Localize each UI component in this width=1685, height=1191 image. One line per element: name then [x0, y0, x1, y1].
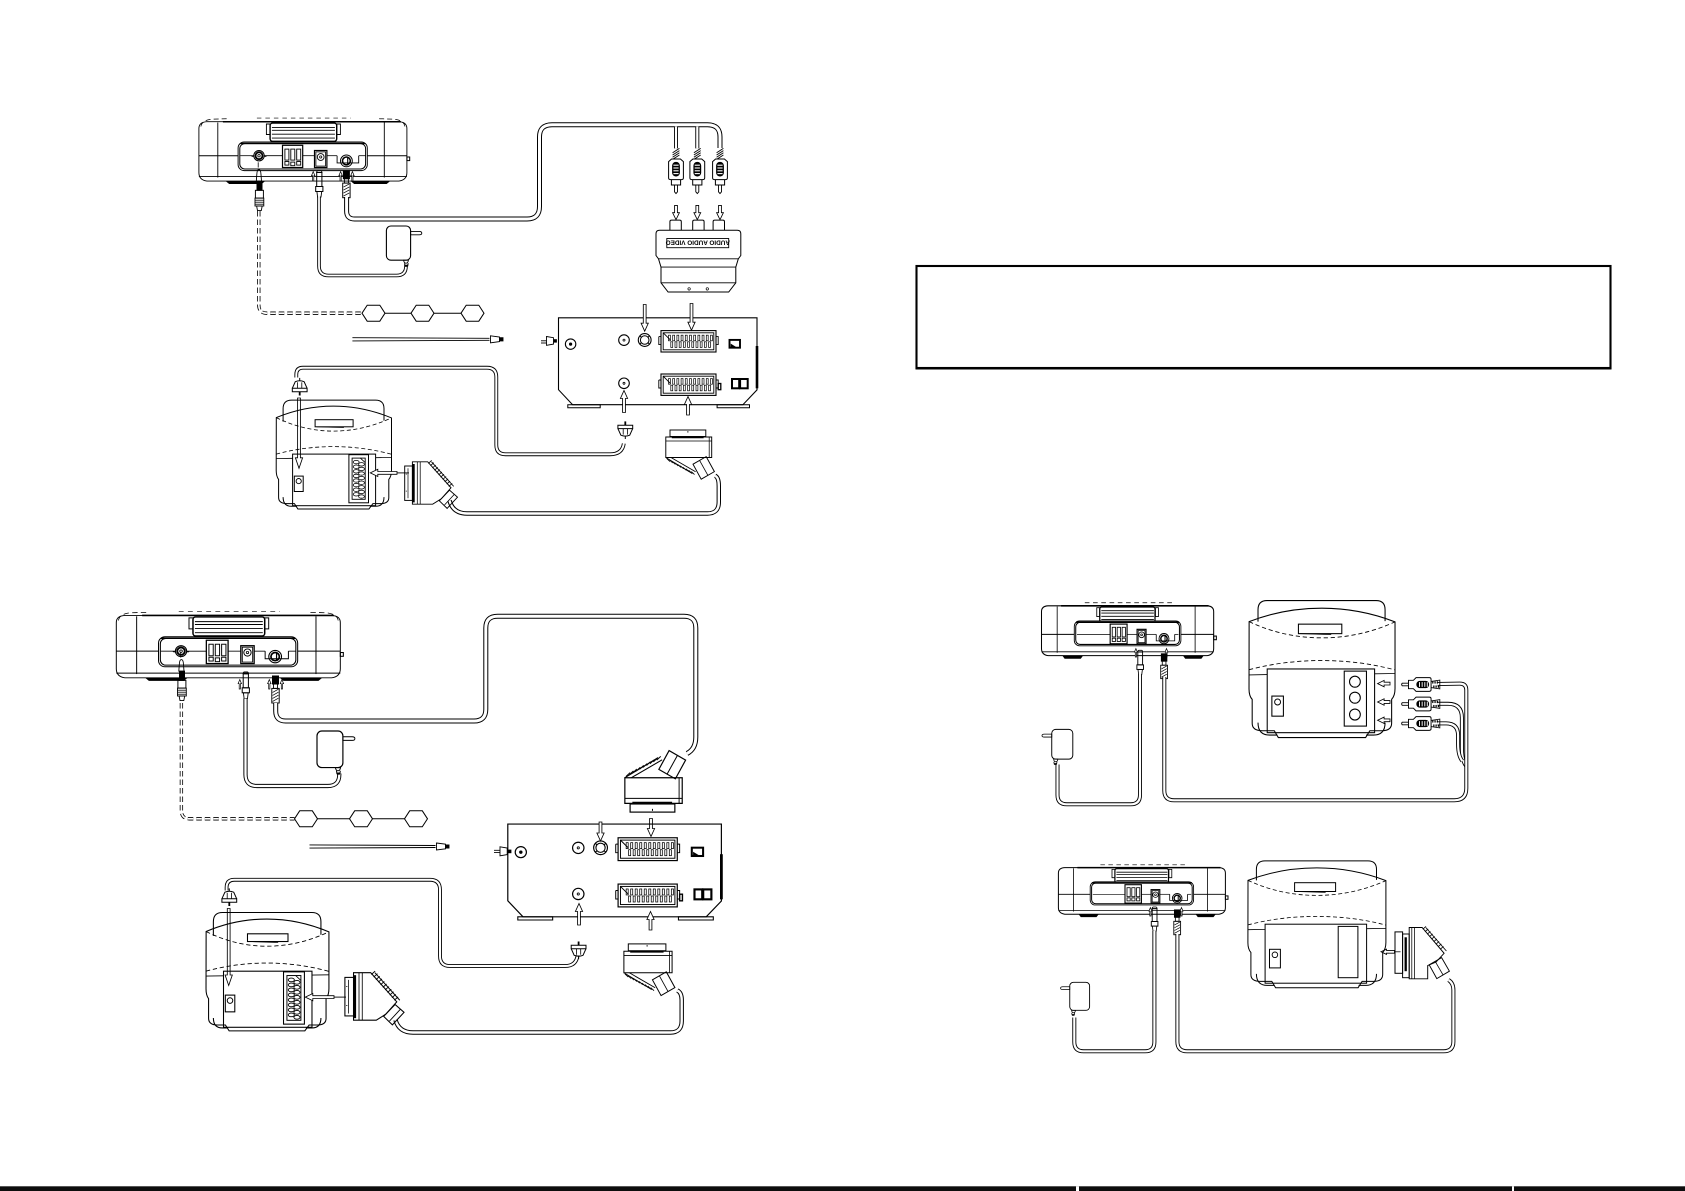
insertion arrow power console 1 — [312, 172, 315, 182]
antenna insertion arrow inside TV 1 — [295, 398, 302, 468]
insertion arrow SCART1 VCR 1 — [688, 304, 695, 331]
power plug into console 3 — [1137, 650, 1144, 674]
AC adapter 1 — [386, 226, 421, 266]
ferrite bead 2 — [411, 305, 434, 321]
AV cable console2 to SCART plug — [276, 616, 696, 753]
TV 1 rear — [276, 400, 391, 509]
TV 4 rear with SCART on side — [1248, 861, 1386, 988]
AV plug into console 1 — [343, 171, 350, 198]
SCART plug at TV 2 — [345, 971, 404, 1025]
insertion arrow AV console 1 — [339, 172, 342, 182]
insertion arrow RF-out VCR 2 — [575, 904, 582, 926]
console 3 — [1042, 603, 1217, 659]
RF plug into console 1 — [255, 162, 264, 210]
ferrite bead 2 d2 — [350, 811, 373, 827]
ferrite bead 3 — [461, 305, 484, 321]
power cable console2 to adapter 2 — [246, 699, 340, 787]
insertion arrow DIN VCR 2 — [597, 822, 604, 841]
SCART plug at TV 1 — [405, 460, 458, 508]
power cable console1 to AC adapter — [319, 197, 406, 276]
ferrite bead 1 — [362, 305, 385, 321]
SCART insertion arrow TV 2 — [305, 994, 334, 1001]
insertion arrow SCART2 VCR 1 (from below) — [684, 397, 691, 416]
power cable console4 to adapter 4 — [1074, 931, 1154, 1051]
page bottom scan edge — [0, 1186, 1685, 1191]
RCA plug red (audio) — [713, 148, 728, 193]
AV plug into console 4 — [1174, 910, 1181, 935]
AC adapter 2 — [317, 731, 355, 774]
RCA cable branch 3 d3 — [1438, 723, 1463, 761]
svg-text:AUDIO AUDIO VIDEO: AUDIO AUDIO VIDEO — [666, 238, 730, 245]
console 1 (game console rear) — [199, 118, 410, 184]
power plug into console 1 — [316, 171, 323, 197]
RCA plug 2 to TV3 — [1402, 697, 1440, 711]
TV 2 rear — [206, 913, 329, 1031]
SCART cable TV1 to VCR2 socket — [450, 476, 719, 514]
RCA plug white (audio) — [690, 148, 705, 193]
AC adapter 4 — [1061, 982, 1090, 1015]
SCART insertion arrow TV 1 — [370, 469, 397, 476]
SCART plug under VCR 2 lower socket — [624, 944, 675, 996]
RCA plug 3 to TV3 — [1402, 717, 1440, 731]
TV4 side socket plate — [1395, 932, 1403, 973]
insertion arrows console 3 — [1134, 649, 1137, 658]
insertion arrows console 2 — [238, 680, 241, 690]
RF lead VCR1 to TV1 — [296, 368, 624, 455]
SCART plug into TV 4 — [1403, 926, 1450, 978]
ferrite bead 1 d2 — [295, 811, 318, 827]
RCA to SCART adapter — [656, 220, 741, 292]
RF plug into console 2 — [178, 652, 187, 700]
AC adapter 3 — [1042, 729, 1073, 764]
insertion arrow SCART2 VCR 2 — [647, 912, 654, 931]
AV cable console1 to RCA plugs — [347, 125, 720, 219]
coax plug to VCR 1 — [618, 421, 633, 439]
coax plug to TV 2 — [222, 888, 237, 906]
insertion arrow RCA 2 — [694, 205, 701, 219]
power plug into console 4 — [1151, 907, 1158, 931]
RCA plug 1 to TV3 — [1402, 678, 1440, 692]
console 4 — [1058, 865, 1228, 917]
insertion arrows console 4 — [1149, 908, 1152, 917]
insertion arrow big SCART plug — [647, 819, 654, 837]
insertion arrow RCA 3 — [717, 205, 724, 219]
aerial cable with plug — [352, 337, 489, 340]
coax plug to TV 1 — [292, 378, 307, 396]
RF antenna cable (dashed) with ferrite beads — [259, 211, 362, 313]
AV plug into console 2 — [272, 676, 279, 703]
VCR 1 rear panel — [559, 318, 758, 408]
aerial lead stub into VCR 1 — [541, 340, 553, 342]
coax plug to VCR 2 — [571, 942, 586, 960]
RCA plug yellow (video) — [669, 148, 684, 193]
power cable console3 to adapter 3 — [1058, 674, 1141, 804]
RCA branch cable 2 — [695, 127, 699, 149]
TV 3 rear with RCA inputs — [1249, 601, 1395, 738]
AV cable console3 to RCA plugs — [1164, 677, 1466, 800]
AV plug into console 3 — [1161, 654, 1168, 679]
note box (empty) — [917, 266, 1611, 368]
RCA cable branch 2 d3 — [1438, 704, 1467, 766]
ferrite bead 3 d2 — [405, 811, 428, 827]
power plug into console 2 — [242, 672, 249, 698]
RF lead VCR2 to TV2 — [227, 880, 578, 966]
aerial stub into VCR 2 — [494, 849, 508, 851]
arrows into TV3 jacks — [1378, 680, 1390, 686]
aerial cable 2 — [310, 844, 436, 847]
insertion arrow RF-out VCR 1 (from below) — [620, 391, 627, 413]
console 2 — [116, 612, 343, 681]
SCART plug under VCR 1 — [666, 430, 715, 479]
big SCART plug into VCR 2 — [625, 751, 686, 813]
VCR 2 rear panel — [508, 824, 722, 920]
AV cable console4 to SCART plug d4 — [1177, 934, 1453, 1051]
RF antenna cable 2 (dashed) with beads — [181, 703, 294, 819]
insertion arrow DIN VCR 1 — [641, 305, 648, 332]
SCART cable TV2 to VCR2 lower socket — [396, 991, 682, 1033]
antenna insertion arrow inside TV 2 — [225, 909, 232, 986]
RCA branch cable 1 — [674, 127, 678, 149]
insertion arrow RCA 1 — [673, 205, 680, 219]
insertion arrow TV4 SCART — [1381, 949, 1395, 954]
